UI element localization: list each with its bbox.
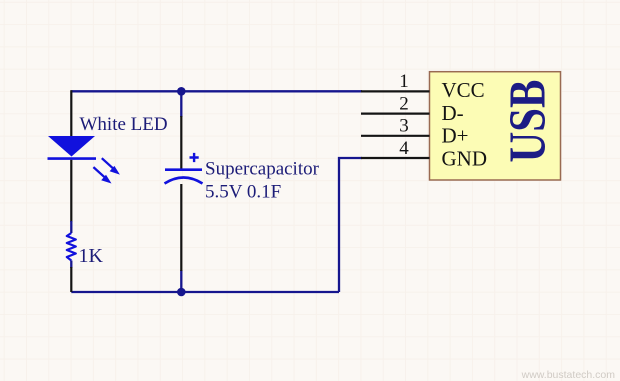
wire pin segment resistor to bottom rail <box>70 267 72 292</box>
wire pin segment LED cathode to resistor <box>70 160 72 222</box>
LED D1 cathode bar <box>48 157 97 160</box>
svg-text:1K: 1K <box>79 245 104 267</box>
LED D1 light emission arrow 1 <box>102 158 120 174</box>
node junction dot bottom of capacitor branch <box>177 288 186 297</box>
pin label D- <box>442 101 464 125</box>
label 1K resistor value <box>79 245 104 267</box>
wire W2 capacitor branch top segment <box>180 91 182 117</box>
svg-text:VCC: VCC <box>442 78 485 102</box>
LED D1 light emission arrow 2 <box>93 167 111 183</box>
wire W6 left rail top corner vertical <box>70 90 72 136</box>
USB connector U1 body <box>430 72 561 180</box>
pin 3 D+ lead <box>361 135 430 137</box>
svg-text:USB: USB <box>500 80 557 163</box>
svg-text:GND: GND <box>442 147 488 171</box>
svg-text:www.bustatech.com: www.bustatech.com <box>521 369 616 381</box>
label White LED <box>80 114 168 135</box>
resistor R1 zigzag body <box>67 233 76 261</box>
pin 2 D- lead <box>361 112 430 114</box>
wire blue nub above resistor <box>70 221 72 233</box>
pin label VCC <box>442 78 485 102</box>
svg-text:White LED: White LED <box>80 114 168 135</box>
LED D1 anode triangle <box>48 136 95 157</box>
pin number 1 <box>399 71 409 92</box>
watermark www.bustatech.com <box>521 369 616 381</box>
wire pin segment capacitor bottom <box>180 184 182 271</box>
pin number 4 <box>399 138 409 159</box>
label Supercapacitor <box>205 159 320 180</box>
pin label GND <box>442 147 488 171</box>
wire blue nub below resistor <box>70 261 72 269</box>
svg-text:D-: D- <box>442 101 464 125</box>
pin 1 VCC lead <box>361 90 430 92</box>
capacitor C1 positive plate <box>165 168 202 171</box>
node junction dot top of capacitor branch <box>177 87 186 96</box>
pin number 2 <box>399 93 409 114</box>
pin 4 GND lead <box>361 157 430 159</box>
wire pin segment capacitor top <box>180 116 182 169</box>
label USB connector name rotated <box>500 80 557 163</box>
capacitor C1 plus polarity sign <box>190 153 199 162</box>
label 5.5V 0.1F capacitor value <box>205 181 281 202</box>
svg-text:Supercapacitor: Supercapacitor <box>205 159 320 180</box>
wire W1 top rail from LED top to USB pin 1 <box>71 90 362 92</box>
pin number 3 <box>399 116 409 137</box>
svg-text:1: 1 <box>399 71 409 92</box>
wire W5 GND net from USB pin 4 down to bottom rail <box>339 158 362 292</box>
svg-text:5.5V 0.1F: 5.5V 0.1F <box>205 181 281 202</box>
svg-text:3: 3 <box>399 116 409 137</box>
capacitor C1 curved negative plate <box>165 178 203 184</box>
wire W3 bottom rail <box>71 291 339 293</box>
svg-text:4: 4 <box>399 138 409 159</box>
pin label D+ <box>442 123 469 147</box>
svg-text:2: 2 <box>399 93 409 114</box>
wire W4 capacitor branch bottom segment <box>180 270 182 292</box>
svg-text:D+: D+ <box>442 123 469 147</box>
